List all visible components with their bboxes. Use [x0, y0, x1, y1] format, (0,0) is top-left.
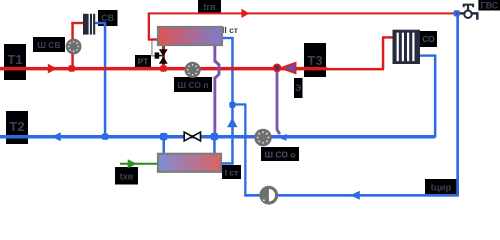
- svg-text:СВ: СВ: [101, 13, 114, 23]
- wire radiator return riser: [434, 55, 437, 137]
- wire T1 radiator feed horizontal: [382, 36, 393, 38]
- svg-text:Ш СО п: Ш СО п: [178, 80, 209, 90]
- svg-text:Э: Э: [295, 83, 302, 93]
- wire gray impulse line vertical: [151, 41, 152, 57]
- wire gray impulse line horizontal: [151, 55, 156, 56]
- svg-text:Ш СВ: Ш СВ: [37, 40, 60, 50]
- pump Sh SO o: [254, 129, 272, 147]
- arrow T2 flow left: [51, 132, 61, 141]
- arrow green cold water: [128, 159, 137, 168]
- pump circulation: [259, 186, 278, 205]
- svg-text:Т1: Т1: [7, 52, 22, 67]
- label tgv: [198, 0, 221, 13]
- wire SV branch riser red: [71, 22, 74, 69]
- label T1: [4, 44, 26, 80]
- arrow T1 flow: [48, 64, 57, 74]
- wire circulation main riser from GVS: [456, 13, 459, 197]
- tap GVS: [459, 5, 477, 20]
- wire T2 main blue return: [0, 135, 436, 139]
- label Sh SV: [33, 37, 65, 52]
- wire circulation riser 2: [244, 104, 246, 196]
- arrow tgv flow: [241, 9, 249, 18]
- wire T1 radiator riser: [382, 37, 385, 69]
- wire purple elevator drop diagonal: [277, 130, 280, 135]
- wire T1 thin segment to radiator: [326, 68, 384, 71]
- wire green cold water inlet: [120, 163, 159, 165]
- svg-text:СО: СО: [422, 34, 435, 44]
- label Sh SO p: [174, 77, 212, 92]
- label SV: [98, 10, 118, 26]
- svg-text:I ст: I ст: [225, 168, 239, 178]
- heat exchanger II stage: [158, 27, 222, 45]
- wire purple HX II primary outlet lower: [213, 77, 216, 138]
- wire HX II secondary inlet horizontal: [222, 37, 234, 39]
- label thv: [115, 167, 138, 185]
- heat exchanger SV bars: [83, 14, 95, 35]
- wire radiator return horizontal: [420, 54, 436, 56]
- label E (elevator): [294, 78, 303, 98]
- wire DHW outlet horizontal to HX II: [148, 38, 159, 40]
- svg-text:tгв: tгв: [203, 2, 216, 12]
- label I st: [222, 165, 241, 179]
- node DHW riser x circulation branch: [229, 102, 235, 108]
- valve RT (control valve on HX II primary): [155, 49, 168, 64]
- wire T2 stub to HX I right: [213, 137, 216, 155]
- wire circulation bottom horizontal: [244, 194, 458, 197]
- wire SV return blue top: [95, 22, 106, 24]
- svg-text:Т3: Т3: [307, 53, 322, 68]
- node T1 x RT riser: [160, 65, 167, 72]
- label RT: [135, 55, 151, 67]
- svg-text:tцир: tцир: [431, 183, 452, 194]
- label Sh SO o: [261, 147, 299, 161]
- elevator E: [274, 63, 296, 74]
- wire purple jump over T1: [215, 61, 219, 78]
- valve on T2 bypass: [184, 132, 200, 141]
- node T2 x HX I right purple junction: [211, 133, 218, 140]
- wire SV return blue riser: [104, 22, 107, 137]
- label T2: [6, 111, 28, 144]
- arrow T2 flow into pump: [277, 134, 286, 141]
- label II st: [222, 25, 238, 35]
- arrow circulation flow left: [350, 191, 360, 200]
- wire tgv top red line: [148, 12, 457, 14]
- pump Sh SO p: [185, 62, 201, 78]
- svg-text:ГВС: ГВС: [481, 1, 499, 11]
- svg-text:Т2: Т2: [9, 119, 24, 134]
- wire HX I outlet horizontal blue: [221, 162, 234, 165]
- wire HX II secondary riser blue: [231, 37, 234, 165]
- wire purple elevator drop: [276, 70, 279, 131]
- node T1 x SV branch: [68, 65, 75, 72]
- wire circulation top branch horizontal: [232, 103, 246, 105]
- svg-text:II ст: II ст: [222, 25, 238, 35]
- pump Sh SV: [66, 39, 82, 55]
- node T2 x SV return: [102, 133, 109, 140]
- node T2 x HX I left: [160, 133, 167, 140]
- wire RT valve riser red: [162, 45, 165, 70]
- radiator SO: [393, 30, 421, 64]
- label T3: [304, 43, 326, 77]
- svg-text:РТ: РТ: [138, 57, 150, 67]
- node GVS takeoff: [454, 10, 460, 16]
- wire T1 main red supply: [0, 67, 327, 71]
- wire T2 stub to HX I left: [163, 137, 166, 155]
- arrow DHW riser up: [227, 118, 237, 128]
- label SO: [420, 31, 437, 47]
- wire DHW outlet riser: [148, 13, 150, 40]
- svg-text:tхв: tхв: [120, 172, 134, 182]
- wire purple HX II primary outlet upper: [213, 45, 216, 63]
- label tcir: [425, 179, 457, 194]
- svg-text:Ш СО о: Ш СО о: [265, 150, 296, 160]
- heat exchanger I stage: [158, 154, 221, 172]
- wire SV branch top red: [71, 22, 83, 24]
- label GVS: [478, 0, 500, 11]
